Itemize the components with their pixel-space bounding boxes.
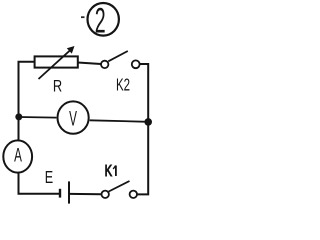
svg-text:V: V — [69, 107, 77, 130]
switch K2 left contact — [101, 61, 108, 68]
switch K2 lever — [108, 51, 128, 61]
wire K2 to right rail — [140, 64, 149, 122]
wire top-left horizontal — [19, 62, 35, 117]
wire battery to switch K1 — [70, 193, 101, 195]
wire left rail to ammeter — [18, 117, 20, 141]
ammeter A — [3, 140, 32, 172]
figure number badge circle — [88, 3, 119, 36]
switch K1 left contact — [102, 191, 109, 198]
battery positive plate (long) — [68, 181, 70, 203]
wire ammeter to bottom corner — [19, 173, 60, 194]
rheostat arrow — [39, 49, 73, 79]
wire resistor to switch K2 — [78, 63, 101, 65]
voltmeter V — [58, 101, 89, 133]
resistor R (rheostat box) — [35, 56, 78, 67]
svg-text:K: K — [105, 162, 112, 179]
svg-text:A: A — [14, 144, 22, 166]
stray dash mark — [81, 16, 85, 18]
svg-text:R: R — [53, 78, 62, 96]
label K1 — [105, 162, 116, 179]
svg-text:2: 2 — [95, 1, 106, 40]
wire voltmeter branch left — [19, 116, 56, 119]
battery negative plate (short) — [59, 189, 61, 198]
wire voltmeter branch right — [90, 120, 148, 122]
node right junction — [144, 118, 152, 126]
svg-text:K2: K2 — [116, 75, 130, 95]
svg-text:E: E — [45, 168, 53, 188]
node left junction — [15, 113, 22, 120]
switch K1 lever — [109, 181, 130, 192]
wire right rail lower — [137, 122, 148, 194]
switch K2 right contact — [132, 60, 140, 68]
switch K1 right contact — [130, 191, 137, 198]
